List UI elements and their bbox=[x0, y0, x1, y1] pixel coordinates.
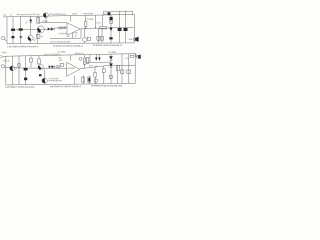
svg-text:4k cont (MVD): 4k cont (MVD) bbox=[83, 12, 94, 15]
svg-text:4u: 4u bbox=[10, 14, 12, 16]
svg-text:SLIK U.S. 2x10 dia 40 4k48a: SLIK U.S. 2x10 dia 40 4k48a bbox=[50, 41, 71, 43]
svg-text:4k7 res 40k BC547B 4a: 4k7 res 40k BC547B 4a bbox=[49, 13, 67, 16]
svg-text:1. ab 2-00a4 m 4x48 ba 47k ad: 1. ab 2-00a4 m 4x48 ba 47k ad 1k4 re bbox=[7, 45, 39, 48]
svg-text:445a 472 1149/FB 294: 445a 472 1149/FB 294 bbox=[44, 54, 60, 56]
svg-text:20 4k48 ba 47k ad 1k4 resp 40a: 20 4k48 ba 47k ad 1k4 resp 40a 4 44a bbox=[91, 84, 123, 87]
svg-text:31.4 4848: 31.4 4848 bbox=[108, 52, 115, 54]
svg-text:4585 47n 44: 4585 47n 44 bbox=[74, 53, 83, 55]
svg-text:sp 40 ohm 4u7 a BC547 1N4148 a: sp 40 ohm 4u7 a BC547 1N4148 a 2 bbox=[53, 46, 84, 48]
svg-text:esp 40 ohm 4u7 a BC547 1N4148: esp 40 ohm 4u7 a BC547 1N4148 a 2 bbox=[50, 86, 82, 88]
svg-text:IC1 4558: IC1 4558 bbox=[86, 19, 93, 21]
svg-text:4k4 ADK72004 44: 4k4 ADK72004 44 bbox=[49, 79, 62, 82]
svg-text:220: 220 bbox=[104, 14, 107, 16]
svg-text:2. ab 2-00a4 m 4x48 ba 47k ad: 2. ab 2-00a4 m 4x48 ba 47k ad 1k4 r bbox=[5, 86, 35, 89]
svg-text:4a48: 4a48 bbox=[74, 32, 78, 34]
svg-text:41a: 41a bbox=[41, 36, 44, 38]
svg-text:4a48: 4a48 bbox=[58, 60, 62, 62]
svg-text:a47 4k: a47 4k bbox=[15, 67, 20, 69]
svg-text:1m 1a 1k: 1m 1a 1k bbox=[3, 60, 10, 62]
svg-text:a1/2 4558: a1/2 4558 bbox=[67, 68, 74, 70]
svg-text:BC547: BC547 bbox=[43, 21, 48, 23]
svg-text:20 4k48 ba 47k ad 1k4 resp 40a: 20 4k48 ba 47k ad 1k4 resp 40a 44 bbox=[93, 44, 123, 47]
svg-text:a4a: a4a bbox=[33, 39, 36, 41]
svg-text:MIC 41: MIC 41 bbox=[2, 52, 7, 54]
svg-text:a 4k: a 4k bbox=[67, 36, 70, 38]
svg-text:4k for resp 4k res ADK7CD4 44a: 4k for resp 4k res ADK7CD4 44a bbox=[16, 13, 40, 16]
svg-text:4k2 4b: 4k2 4b bbox=[72, 13, 77, 15]
svg-text:a2 1N4148: a2 1N4148 bbox=[59, 33, 67, 35]
